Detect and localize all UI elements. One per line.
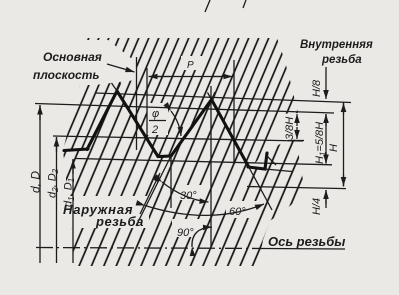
white pocket: 90 deg [172,219,202,237]
P pitch dimension line [150,76,231,78]
dimension line d2,D2 vertical [56,137,58,263]
white pocket: Naruzhnaya rezba label [61,196,149,228]
apex line (line of sharp profile tips) [95,93,351,103]
svg-text:Внутренняя: Внутренняя [300,39,373,51]
hatched region: external thread (bolt) section [63,91,305,266]
arrowhead P left [149,76,171,78]
svg-text:H: H [328,144,340,152]
white pocket: osnovnaya ploskost label and leader [30,40,136,85]
svg-text:Основная: Основная [43,50,102,64]
svg-text:Ось резьбы: Ось резьбы [268,234,345,249]
dimension line d1,D1 vertical [72,159,74,263]
svg-text:резьба: резьба [95,214,144,229]
arrowhead d1,D1 [72,160,74,175]
extension line left of P [146,68,148,138]
H dimension line [343,103,345,187]
H dimension upper arrow [343,103,345,114]
vertical line through groove root [170,157,172,208]
flank extension below right flank of tooth 2 [249,167,273,211]
H/4 lower arrow [325,190,327,204]
svg-text:2: 2 [151,124,158,136]
thread axis solid segment under label [266,248,345,251]
H/4 arrow tail [325,190,327,208]
arrowhead d2,D2 [56,138,58,153]
svg-text:H/8: H/8 [311,79,323,97]
svg-text:90°: 90° [177,227,194,239]
extension line right of P [233,60,235,164]
d2,D2 pitch diameter line [53,136,303,141]
thread profile root stub with upturn right [248,153,267,169]
white pocket: 60 deg [226,201,257,218]
d,D major diameter line [35,104,334,114]
flank extension above peak 2 left [208,93,212,100]
60 deg arc [145,204,264,215]
svg-text:d, D: d, D [29,171,43,193]
90 deg arc [192,227,212,247]
right side dimension verticals [288,67,344,208]
hatched region: internal thread (nut) section [63,38,298,167]
3/8H dimension upper arrow [296,114,298,126]
d1,D1 minor diameter line [76,159,332,165]
phi/2 curved leader [171,111,181,136]
sharp root line [247,187,346,189]
phi/2 fraction bar [149,120,166,122]
thread axis dash-dot line [36,248,266,249]
stray hatch mark top left [205,0,210,12]
flank extension below left flank of tooth 2 [136,156,171,226]
H1=5/8H dimension upper arrow [325,114,327,126]
30 deg arc [162,182,209,202]
flank extension above peak 2 right [212,92,216,100]
crow's foot branch at right root [267,156,276,165]
arrowhead d,D [39,106,41,121]
flank extension above peak 1 right [117,84,121,92]
svg-text:φ: φ [152,108,159,120]
svg-text:P: P [187,60,194,71]
white pocket: phi/2 label [147,103,168,135]
svg-text:H1=5/8H: H1=5/8H [314,122,328,164]
dimension line d,D vertical [39,105,41,263]
H1=5/8H dimension line [325,114,327,164]
svg-text:H/4: H/4 [311,198,323,215]
thread profile crest flat left [64,149,88,151]
3/8H end tick at pitch line [288,140,304,142]
H1=5/8H dimension lower arrow [325,152,327,164]
svg-text:60°: 60° [229,206,246,218]
H dimension lower arrow [343,175,345,186]
svg-text:30°: 30° [180,190,197,202]
vertical line through second peak [210,86,212,246]
root line thin continuation right [265,169,292,172]
3/8H dimension lower arrow [296,127,298,139]
leader arrow: naruzhnaya rezba label [140,173,160,214]
arrowhead P right [212,76,233,78]
white pocket: P label [181,56,204,70]
thread profile zigzag teeth [87,91,249,167]
flank extension above peak 1 left [112,83,118,91]
H/8 arrow (down to d,D apex line) [325,67,327,99]
basic plane vertical line [136,57,138,150]
white pocket: 30 deg [176,185,205,200]
svg-text:резьба: резьба [321,54,362,66]
svg-text:плоскость: плоскость [33,68,100,82]
stray hatch mark top right [243,0,246,8]
svg-text:3/8H: 3/8H [284,117,296,140]
leader arrow: basic plane label [107,64,135,72]
